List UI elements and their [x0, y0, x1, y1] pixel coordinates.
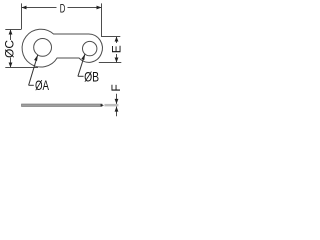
- side view plate (edge view bar): [22, 104, 103, 107]
- svg-text:ØB: ØB: [84, 69, 99, 85]
- arrowhead F upper (points down): [115, 99, 119, 104]
- small arrow at bar right end: [101, 104, 104, 107]
- svg-text:E: E: [109, 45, 123, 53]
- hole B (small circle): [83, 41, 97, 55]
- dim line bottom segment: [10, 58, 12, 68]
- dimension ØC (big disc diameter, left): [5, 30, 38, 68]
- svg-text:ØA: ØA: [35, 77, 49, 93]
- arrowhead E bottom: [115, 58, 119, 63]
- arrowhead F lower (points up): [115, 107, 119, 112]
- part outline: big disc + right cap lobe: [22, 29, 102, 67]
- arrowhead C bottom: [9, 63, 13, 68]
- arrowhead D right: [97, 6, 102, 10]
- svg-text:D: D: [60, 3, 66, 16]
- dim line top segment: [116, 37, 118, 44]
- svg-text:ØC: ØC: [2, 40, 16, 58]
- leader ØB (small hole): [78, 54, 85, 76]
- arrowhead ØA: [34, 55, 38, 61]
- hole A (large circle inner): [34, 39, 52, 57]
- dim line left segment: [22, 7, 57, 9]
- arrowhead D left: [22, 6, 27, 10]
- F ext lines right of bar: [104, 104, 118, 107]
- ext line bottom: [99, 62, 122, 64]
- arrowhead ØB: [81, 54, 85, 60]
- leader ØA (large hole): [29, 55, 38, 85]
- dimension D (overall length, top): [22, 3, 102, 36]
- dim line right segment: [68, 7, 102, 9]
- dim line top segment: [10, 30, 12, 41]
- arrowhead E top: [115, 37, 119, 42]
- dimension F (thickness): [116, 94, 118, 116]
- ext line bottom: [5, 67, 38, 69]
- ext line top: [101, 36, 120, 38]
- ext line right: [101, 3, 103, 36]
- dimension E (cap height, right): [99, 37, 122, 63]
- svg-text:F: F: [109, 84, 123, 91]
- ext line left: [21, 3, 23, 29]
- ext line top: [5, 29, 21, 31]
- outer silhouette: [22, 29, 102, 67]
- arrowhead C top: [9, 30, 13, 35]
- dim line bottom segment: [116, 54, 118, 63]
